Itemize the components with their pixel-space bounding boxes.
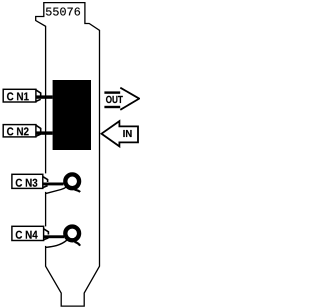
wire CN4 to jack (44, 235, 64, 238)
tag CN4 (12, 226, 49, 240)
bracket outline (36, 3, 100, 307)
flange arc CN4 (46, 240, 67, 247)
jack CN3 tail (75, 190, 81, 192)
tag CN1 (3, 89, 41, 102)
callout backdrop CN3 (43, 173, 49, 192)
jack CN4 tail (75, 242, 81, 246)
jack CN3 (65, 174, 79, 188)
flange arc CN3 (46, 187, 67, 194)
arrow OUT (104, 88, 139, 110)
jack CN4 (65, 227, 79, 241)
wire CN2 to block (36, 131, 53, 134)
callout backdrop CN4 (43, 226, 49, 246)
tag CN3 (12, 174, 48, 188)
wire CN1 to block (36, 95, 53, 98)
tag CN2 (3, 125, 41, 137)
wire CN3 to jack (43, 183, 64, 186)
label 55076 (46, 8, 80, 16)
connector block CN1/CN2 (53, 80, 91, 150)
arrow IN (102, 121, 139, 146)
